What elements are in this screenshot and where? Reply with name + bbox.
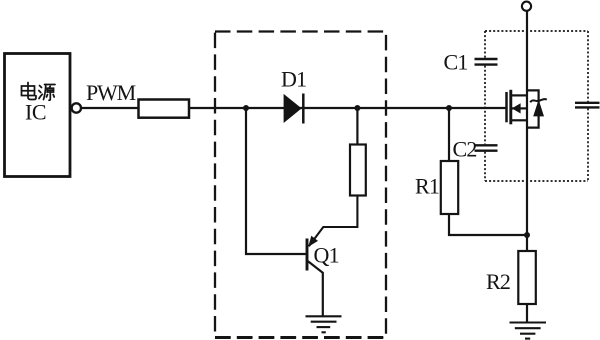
transistor M1 MOSFET gate bar	[505, 92, 508, 122]
power IC box U-PWR	[5, 54, 71, 177]
dotted box (MOSFET package with parasitics)	[485, 31, 588, 181]
terminal (drain supply, top)	[522, 2, 531, 11]
node J2 (junction after D1)	[354, 105, 360, 111]
transistor Q1 bar	[306, 239, 309, 271]
dashed box bottom edge (heavier)	[215, 336, 386, 339]
wire collector path of Q1	[309, 196, 358, 247]
wire base of Q1 from J1	[246, 110, 306, 254]
resistor R2	[518, 251, 536, 304]
transistor M1 MOSFET channel bar	[509, 90, 512, 125]
dotted left edge segments (interrupted by C1, C2)	[484, 31, 486, 58]
dashed box (turn-off driver network)	[215, 32, 386, 338]
svg-text:IC: IC	[25, 100, 46, 125]
wire emitter of Q1 to ground	[308, 261, 323, 316]
wire drain vertical main line	[526, 11, 528, 251]
svg-text:C1: C1	[444, 50, 468, 75]
label 源 (drawn glyph)	[39, 85, 55, 101]
label 电 (drawn glyph)	[22, 83, 37, 100]
body diode cathode (curved bar)	[530, 99, 547, 102]
capacitor C1 (gate-drain parasitic)	[475, 59, 498, 65]
capacitor drain-source parasitic (unlabeled)	[575, 103, 600, 108]
svg-text:D1: D1	[281, 67, 306, 92]
dotted right edge segments (interrupted by cap)	[587, 31, 589, 102]
svg-text:R2: R2	[486, 269, 510, 294]
resistor series gate resistor (unlabeled)	[139, 100, 190, 118]
wire R2 to ground	[526, 304, 528, 322]
arrowhead M1 body (points to channel, N-ch)	[512, 103, 521, 113]
node J3 (junction gate node)	[446, 105, 452, 111]
dotted bottom edge	[485, 180, 588, 182]
wire M1 source stub	[512, 119, 527, 121]
arrowhead on Q1 collector (points into bar, PNP)	[308, 236, 318, 247]
capacitor C2 (gate-source parasitic)	[475, 145, 498, 150]
wire body diode branch	[527, 90, 539, 127]
terminal (PWM output pin circle)	[72, 103, 81, 112]
svg-text:PWM: PWM	[86, 80, 136, 105]
wire main horizontal (PWM net to gate)	[81, 107, 506, 109]
wire R1 bottom to source node	[449, 214, 527, 235]
ground (source/R2)	[510, 323, 547, 339]
svg-text:R1: R1	[415, 174, 439, 199]
wire M1 drain stub	[512, 94, 527, 96]
node J1 (junction on PWM net)	[243, 105, 249, 111]
diode D1	[284, 94, 304, 124]
body diode of M1 (triangle)	[533, 100, 544, 117]
dotted top edge	[485, 30, 588, 32]
wire M1 body stub	[512, 107, 528, 109]
node J4 (source node junction)	[524, 232, 530, 238]
resistor R1	[441, 161, 458, 214]
wire J3 to R1	[448, 108, 450, 161]
wire J2 to resistor	[356, 108, 358, 145]
resistor vertical (base bleed, unlabeled)	[350, 145, 366, 196]
ground (Q1 emitter)	[306, 316, 342, 332]
svg-text:Q1: Q1	[314, 243, 339, 268]
svg-text:C2: C2	[453, 137, 477, 162]
